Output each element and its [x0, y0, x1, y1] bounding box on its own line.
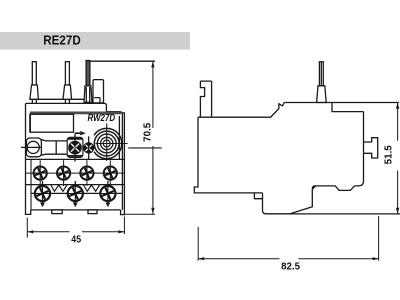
svg-text:RW27D: RW27D — [88, 113, 116, 124]
svg-text:45: 45 — [71, 234, 81, 245]
svg-text:51.5: 51.5 — [384, 145, 395, 165]
svg-text:82.5: 82.5 — [281, 260, 300, 272]
svg-text:RE27D: RE27D — [43, 33, 81, 47]
svg-text:70.5: 70.5 — [143, 122, 154, 142]
